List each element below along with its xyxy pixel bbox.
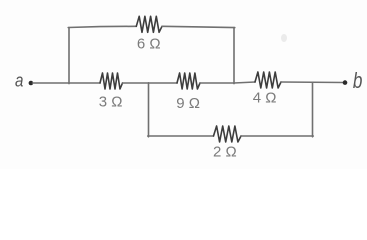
resistor R4 4 ohm <box>255 72 281 88</box>
svg-text:9 Ω: 9 Ω <box>176 95 200 112</box>
svg-text:4 Ω: 4 Ω <box>253 90 277 107</box>
svg-text:2 Ω: 2 Ω <box>213 144 237 161</box>
svg-text:6 Ω: 6 Ω <box>137 35 161 52</box>
resistor R6 6 ohm <box>136 16 162 32</box>
wire bottom branch left horizontal <box>148 135 214 137</box>
wire top branch left horizontal <box>68 26 136 27</box>
svg-text:3 Ω: 3 Ω <box>99 93 123 110</box>
terminal a dot <box>29 81 34 86</box>
wire top branch right vertical <box>233 28 235 84</box>
svg-text:a: a <box>15 70 23 91</box>
terminal b dot <box>343 80 348 85</box>
faint smudge artifact <box>281 34 287 42</box>
resistor R3 3 ohm <box>100 73 123 89</box>
wire R3 to R9 through node below 3-9 <box>123 82 178 84</box>
resistor R9 9 ohm <box>177 73 200 89</box>
wire a to resistor R3 <box>33 82 101 84</box>
wire bottom branch right horizontal <box>241 135 313 137</box>
wire bottom branch right vertical <box>312 83 314 137</box>
resistor R2 2 ohm <box>214 126 242 142</box>
wire R4 to terminal b <box>281 81 344 84</box>
svg-text:b: b <box>353 69 363 94</box>
wire R9 to R4 <box>200 82 255 83</box>
wire top branch left vertical <box>68 28 70 84</box>
wire top branch right horizontal <box>162 26 235 27</box>
wire bottom branch left vertical <box>148 83 150 137</box>
